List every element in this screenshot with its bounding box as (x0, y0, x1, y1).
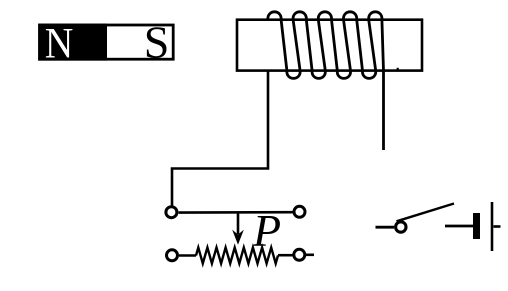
svg-text:S: S (144, 17, 170, 68)
svg-text:N: N (45, 19, 74, 67)
svg-text:P: P (252, 205, 281, 256)
